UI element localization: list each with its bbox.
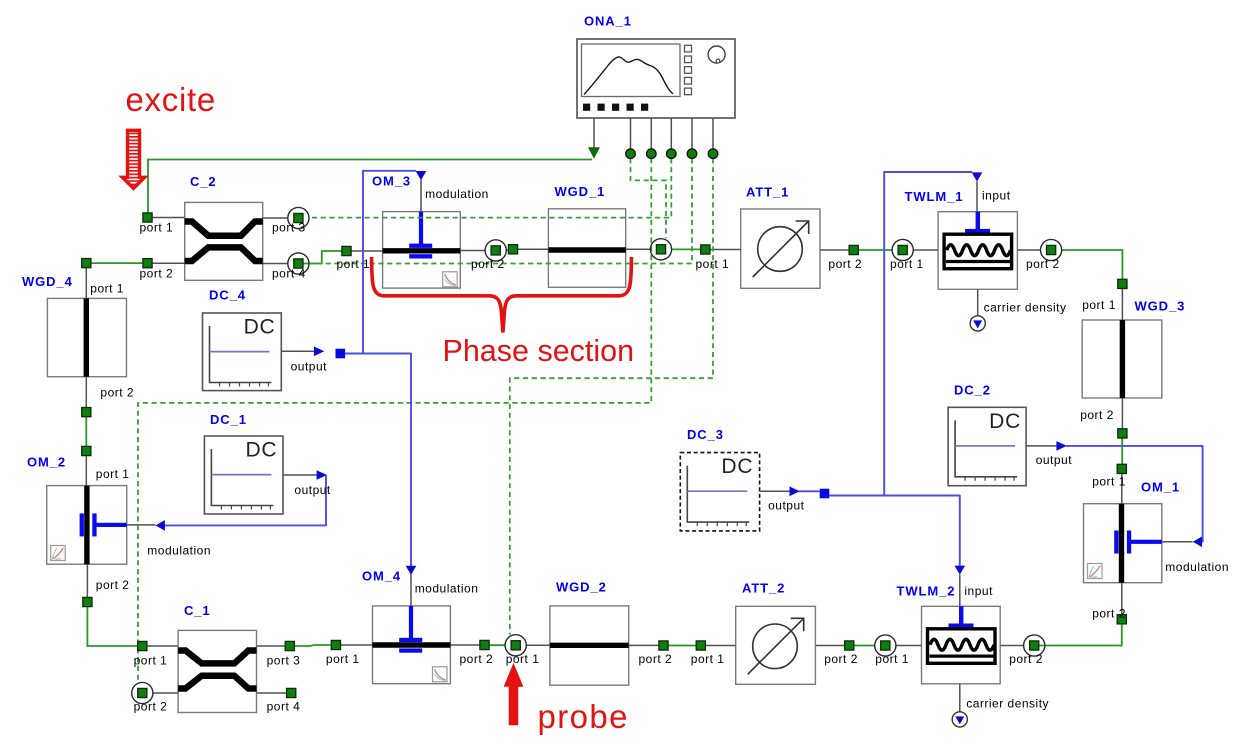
- green optical wires: [86, 160, 1122, 647]
- annotation solid arrow (probe): [504, 663, 524, 725]
- blue node square (DC_4): [336, 349, 346, 359]
- svg-text:port 3: port 3: [272, 221, 306, 235]
- svg-text:OM_4: OM_4: [362, 569, 401, 584]
- DC source DC_3 (dashed border): [680, 453, 759, 531]
- svg-text:modulation: modulation: [1165, 560, 1229, 574]
- C_2 port 2: [143, 259, 152, 268]
- OM_4 port 2: [480, 640, 489, 649]
- blue arrowhead DC_3 output: [790, 487, 800, 497]
- svg-text:port 1: port 1: [1082, 298, 1116, 312]
- svg-text:OM_3: OM_3: [372, 174, 411, 189]
- coupler C_1: [178, 630, 256, 712]
- annotation brace (phase section): [372, 257, 632, 333]
- wire DC_1 output to OM_2 modulation: [165, 476, 327, 526]
- svg-text:DC_3: DC_3: [687, 427, 724, 442]
- waveguide WGD_3: [1082, 320, 1162, 398]
- TWLM_1 port 2 (monitored): [1047, 245, 1056, 254]
- svg-text:port 3: port 3: [267, 654, 301, 668]
- laser TWLM_1: [938, 212, 1017, 290]
- wire WGD_4 port1 to C_2 port2: [91, 262, 143, 264]
- svg-text:input: input: [982, 189, 1011, 203]
- blue arrowhead DC_2 output: [1056, 441, 1066, 451]
- blue arrowhead OM_2 modulation: [156, 520, 165, 531]
- svg-text:TWLM_2: TWLM_2: [897, 584, 956, 599]
- dashed ONA port6 link to WGD_2 port1: [510, 158, 713, 635]
- WGD_1 port 2 node (monitored): [656, 245, 665, 254]
- C_2 port 1: [143, 213, 152, 222]
- C_2 stems: [152, 218, 288, 264]
- svg-text:DC_2: DC_2: [954, 383, 991, 398]
- wire OM_4 port1 to C_1 port3: [294, 645, 331, 646]
- WGD_4 port 2: [82, 408, 91, 417]
- ATT_1 stems: [710, 249, 849, 252]
- C_1 port 2 (monitored): [138, 688, 147, 697]
- wire ATT_2 port1 to WGD_2 port2: [668, 645, 696, 647]
- TWLM_2 port 2 (monitored): [1030, 641, 1039, 650]
- ONA_1 input triangle: [588, 147, 600, 158]
- wire ATT_1 port2 to TWLM_1 port1: [858, 249, 892, 251]
- ATT_1 port 2: [849, 245, 858, 254]
- WGD_2 stems: [526, 644, 659, 646]
- blue arrowhead DC_1 output: [317, 470, 327, 480]
- attenuator ATT_1: [741, 209, 820, 288]
- wire WGD_3 port2 to OM_1 port1: [1121, 438, 1123, 464]
- WGD_3 stems: [1121, 289, 1123, 429]
- OM_2 port 1: [82, 446, 91, 455]
- blue arrowhead TWLM_1 input: [972, 172, 983, 181]
- OM_1 port 1: [1117, 464, 1126, 473]
- svg-text:port 2: port 2: [1026, 257, 1060, 271]
- blue arrowhead OM_4 modulation: [406, 566, 417, 575]
- attenuator ATT_2: [736, 606, 816, 684]
- svg-text:port 1: port 1: [875, 652, 909, 666]
- TWLM_1 stems: [913, 182, 1040, 316]
- coupler C_2: [185, 202, 263, 280]
- svg-text:port 1: port 1: [326, 652, 360, 666]
- C_2 port 3 (monitored): [294, 213, 303, 222]
- modulator OM_3: [383, 212, 461, 289]
- ATT_2 port 2: [845, 641, 854, 650]
- wire TWLM_1 port2 to WGD_3 port1: [1062, 250, 1123, 279]
- ATT_1 port 1: [701, 245, 710, 254]
- OM_2 port 2: [83, 597, 92, 606]
- svg-text:port 2: port 2: [1009, 652, 1043, 666]
- wire C_2 port1 to ONA_1 input: [148, 160, 592, 214]
- ONA_1 stems: [594, 118, 713, 149]
- svg-text:port 2: port 2: [140, 266, 174, 280]
- WGD_4 port 1: [82, 259, 91, 268]
- svg-text:port 1: port 1: [96, 467, 130, 481]
- TWLM_1 port 1 (monitored): [898, 245, 907, 254]
- wire C_2 port4 to OM_3 port1: [303, 251, 342, 264]
- ATT_2 port 1: [696, 641, 705, 650]
- C_1 port 1: [138, 641, 147, 650]
- wire DC_2 output to OM_1 modulation: [1066, 446, 1203, 542]
- TWLM_2 carrier density probe: [952, 712, 967, 727]
- port name labels: [90, 221, 1126, 714]
- svg-text:DC_4: DC_4: [209, 288, 246, 303]
- component name labels: [22, 14, 1185, 619]
- ATT_2 stems: [705, 645, 844, 647]
- svg-text:output: output: [768, 499, 805, 513]
- waveguide WGD_4: [47, 298, 126, 376]
- svg-text:TWLM_1: TWLM_1: [905, 189, 964, 204]
- waveguide WGD_2: [550, 606, 629, 685]
- WGD_3 port 2: [1118, 429, 1127, 438]
- C_1 stems: [147, 646, 287, 693]
- dashed ONA port4 link to C_2 port3: [309, 158, 671, 217]
- svg-text:carrier density: carrier density: [966, 697, 1049, 711]
- svg-text:port 1: port 1: [696, 257, 730, 271]
- DC output stems: [281, 351, 1056, 491]
- svg-text:OM_2: OM_2: [27, 455, 66, 470]
- svg-text:WGD_3: WGD_3: [1135, 299, 1186, 314]
- svg-text:C_1: C_1: [184, 603, 211, 618]
- svg-text:DC_1: DC_1: [210, 412, 247, 427]
- C_2 port 4 (monitored): [294, 259, 303, 268]
- blue node square (DC_3): [820, 489, 830, 499]
- wire DC_3 output to TWLM_1/TWLM_2 input: [799, 490, 820, 492]
- dashed ONA port3 link to C_1 port2: [138, 158, 651, 682]
- TWLM_2 stems: [896, 575, 1024, 712]
- svg-text:output: output: [1036, 453, 1073, 467]
- OM_3 port 2 (monitored): [491, 246, 500, 255]
- wire DC_4 node to OM_3/OM_4 modulation: [345, 354, 411, 567]
- svg-text:port 2: port 2: [1080, 408, 1114, 422]
- blue arrowhead OM_3 modulation: [416, 171, 427, 180]
- svg-text:WGD_2: WGD_2: [556, 580, 607, 595]
- svg-text:modulation: modulation: [147, 544, 211, 558]
- modulator OM_1: [1084, 504, 1162, 583]
- svg-text:C_2: C_2: [190, 174, 217, 189]
- svg-text:ONA_1: ONA_1: [584, 14, 632, 29]
- wire OM_3 port2 to WGD_1 port1: [506, 249, 509, 251]
- OM_4 stems: [341, 575, 480, 646]
- svg-text:port 1: port 1: [140, 221, 174, 235]
- OM_3 port 1: [342, 246, 351, 255]
- svg-text:port 2: port 2: [134, 700, 168, 714]
- svg-text:port 1: port 1: [506, 652, 540, 666]
- WGD_3 port 1: [1118, 279, 1127, 288]
- TWLM_1 carrier density probe: [970, 316, 985, 331]
- svg-text:port 1: port 1: [134, 654, 168, 668]
- OM_3 stems: [351, 180, 485, 251]
- OM_1 stems: [1122, 474, 1193, 615]
- wire WGD_1 port2 to ATT_1 port1: [672, 248, 701, 250]
- svg-text:port 2: port 2: [824, 652, 858, 666]
- svg-text:port 4: port 4: [267, 700, 301, 714]
- svg-text:WGD_1: WGD_1: [555, 184, 606, 199]
- dashed ONA port5 link to C_2 port4: [309, 158, 692, 263]
- svg-text:output: output: [294, 483, 331, 497]
- svg-text:modulation: modulation: [415, 582, 479, 596]
- svg-text:port 2: port 2: [96, 578, 130, 592]
- svg-text:port 4: port 4: [272, 266, 306, 280]
- svg-text:output: output: [291, 360, 328, 374]
- TWLM_2 port 1 (monitored): [881, 641, 890, 650]
- svg-text:modulation: modulation: [425, 187, 489, 201]
- svg-text:port 2: port 2: [1092, 607, 1126, 621]
- gray port stems: [86, 118, 1192, 712]
- blue electrical wires: [165, 171, 1203, 566]
- C_1 port 3: [285, 641, 294, 650]
- OM_2 stems: [86, 456, 155, 598]
- green dashed monitor links: [138, 158, 713, 682]
- svg-text:Phase section: Phase section: [443, 334, 635, 368]
- modulator OM_4: [373, 606, 451, 684]
- WGD_1 stems: [518, 248, 651, 250]
- ONA_1 monitor circles: [626, 149, 718, 159]
- wire WGD_2 port1 to OM_4 port2: [489, 644, 505, 646]
- svg-text:OM_1: OM_1: [1141, 480, 1180, 495]
- DC source DC_1: [204, 436, 283, 514]
- WGD_4 stems: [85, 268, 87, 408]
- svg-text:port 2: port 2: [471, 257, 505, 271]
- blue arrowhead OM_1 modulation: [1193, 537, 1202, 548]
- svg-text:port 1: port 1: [1092, 475, 1126, 489]
- annotation striped arrow (excite): [122, 130, 144, 188]
- WGD_2 port 2: [659, 641, 668, 650]
- svg-text:probe: probe: [538, 698, 629, 735]
- wire OM_2 port2 to C_1 port1: [87, 607, 137, 646]
- DC source DC_4: [203, 313, 282, 391]
- wire TWLM_2 port1 to ATT_2 port2: [854, 645, 875, 647]
- wire OM_1 port2 to TWLM_2 port2: [1039, 624, 1122, 646]
- blue arrowhead TWLM_2 input: [955, 566, 966, 575]
- svg-text:port 1: port 1: [691, 652, 725, 666]
- svg-text:port 1: port 1: [90, 281, 124, 295]
- DC source DC_2: [948, 407, 1026, 485]
- svg-text:port 1: port 1: [337, 257, 371, 271]
- wire OM_2 port1 to WGD_4 port2: [85, 417, 87, 447]
- dashed ONA port2 link to WGD_1 output node: [631, 158, 667, 238]
- modulator OM_2: [47, 486, 127, 565]
- waveguide WGD_1: [548, 209, 625, 287]
- instrument ONA_1: [577, 39, 735, 118]
- svg-text:WGD_4: WGD_4: [22, 274, 73, 289]
- blue arrowhead DC_4 output: [314, 347, 324, 357]
- svg-text:port 1: port 1: [890, 257, 924, 271]
- WGD_2 port 1 (monitored, probe point): [511, 641, 520, 650]
- WGD_1 port 1: [508, 245, 517, 254]
- signal labels: [147, 187, 1229, 711]
- laser TWLM_2: [922, 606, 1001, 684]
- svg-text:carrier density: carrier density: [984, 301, 1067, 315]
- OM_4 port 1: [331, 640, 340, 649]
- svg-text:port 2: port 2: [639, 652, 673, 666]
- svg-text:ATT_2: ATT_2: [742, 581, 785, 596]
- svg-text:port 2: port 2: [460, 652, 494, 666]
- svg-text:port 2: port 2: [100, 386, 134, 400]
- svg-text:excite: excite: [126, 81, 216, 118]
- svg-text:port 2: port 2: [828, 257, 862, 271]
- svg-text:input: input: [964, 584, 993, 598]
- OM_1 port 2: [1117, 615, 1126, 624]
- C_1 port 4: [287, 688, 296, 697]
- svg-text:ATT_1: ATT_1: [746, 185, 789, 200]
